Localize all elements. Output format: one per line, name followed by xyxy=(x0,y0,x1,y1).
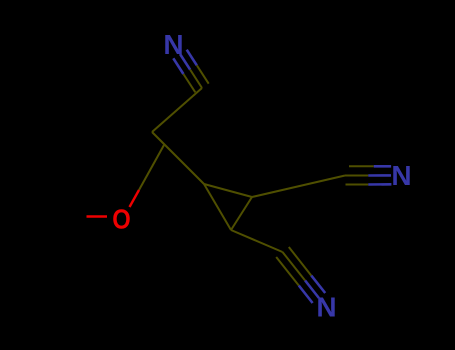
triple bond C1#N1: olive halves xyxy=(183,65,208,92)
wire: olive half of O-C_OMe bond xyxy=(139,145,164,190)
wire: cyclopropane edge R3-R1 xyxy=(204,184,231,230)
svg-text:N: N xyxy=(163,29,183,60)
svg-text:N: N xyxy=(316,291,336,322)
wire: long bond R2-C2 to right nitrile carbon xyxy=(252,176,345,198)
triple bond C1#N1 (top nitrile): blue halves xyxy=(173,50,197,74)
wire: red half of O-CH3 bond xyxy=(87,215,108,217)
wire: V1-R1 chain bond through C_OMe xyxy=(152,132,204,184)
svg-text:N: N xyxy=(391,160,411,191)
svg-text:O: O xyxy=(112,203,131,234)
wire: C1-V1 skeleton bond (nitrile carbon to CH2) xyxy=(152,88,202,132)
triple bond C2#N2: blue halves xyxy=(368,166,391,184)
wire: cyclopropane edge R1-R2 xyxy=(204,184,252,197)
wire: bond R3-C3 to bottom nitrile carbon xyxy=(231,230,283,252)
triple bond C3#N3 (bottom nitrile): olive halves xyxy=(276,247,311,286)
triple bond C3#N3: blue halves xyxy=(299,276,325,303)
wire: red half of O-C_OMe bond xyxy=(130,190,140,207)
wire: cyclopropane edge R2-R3 xyxy=(231,197,252,230)
triple bond C2#N2 (right nitrile): olive halves xyxy=(345,166,374,184)
